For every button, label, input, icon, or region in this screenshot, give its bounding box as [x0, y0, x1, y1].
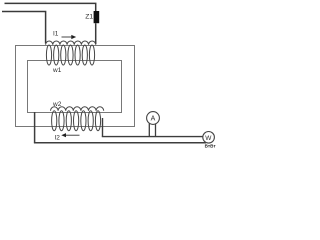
- wire to ammeter and wattmeter: [102, 136, 203, 138]
- svg-text:Z1: Z1: [85, 13, 93, 20]
- current arrow I1: [62, 36, 72, 38]
- wire Z1 to w1 right end: [95, 23, 97, 44]
- wattmeter W: [203, 132, 215, 144]
- ammeter A: [147, 112, 160, 125]
- winding w2: [51, 107, 104, 131]
- current arrow I2: [66, 134, 80, 136]
- winding w1: [46, 41, 96, 65]
- core inner rectangle: [28, 61, 122, 113]
- wire w2 left end down to bottom: [34, 112, 36, 143]
- core outer rectangle: [16, 46, 135, 127]
- wire top line 2 to w1 left end: [2, 12, 46, 44]
- svg-text:w1: w1: [52, 67, 62, 74]
- svg-text:w2: w2: [52, 101, 62, 108]
- wire bottom to wattmeter: [34, 142, 206, 144]
- svg-text:ВтВт: ВтВт: [205, 144, 217, 149]
- svg-text:A: A: [151, 116, 156, 123]
- ammeter legs: [149, 124, 155, 137]
- wire top line 1 to Z1: [5, 3, 96, 11]
- wire w2 right end down: [102, 118, 104, 137]
- svg-text:I2: I2: [55, 135, 61, 142]
- svg-text:I1: I1: [53, 31, 59, 38]
- impedance Z1: [94, 11, 100, 23]
- svg-text:W: W: [205, 135, 212, 142]
